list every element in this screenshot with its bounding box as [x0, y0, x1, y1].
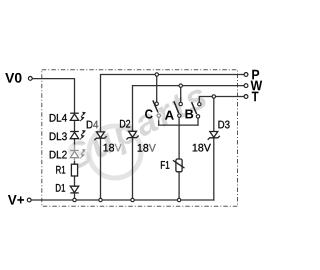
terminal T: [244, 95, 248, 99]
label D1: [56, 184, 65, 192]
wire W net: D2 column top to W terminal: [133, 86, 244, 132]
junction node rail DL column: [73, 198, 76, 201]
terminal W: [244, 84, 248, 88]
switch A: [174, 101, 183, 117]
watermark wash over second 18V letter V: [149, 144, 157, 154]
LED DL4: [70, 113, 79, 120]
label V0: [5, 73, 21, 83]
label P: [252, 70, 259, 80]
wire D3 column bottom: [213, 138, 215, 200]
wire B bottom stub: [197, 119, 199, 126]
wire DL4-DL3: [74, 120, 76, 131]
label B: [185, 109, 193, 118]
resistor R1: [71, 164, 77, 176]
label 18V for D4: [104, 144, 122, 152]
junction node rail D4 column: [99, 198, 102, 201]
wire D4 column bottom: [100, 138, 102, 200]
diode D1: [70, 186, 78, 193]
watermark wash over 18V letter V: [114, 143, 122, 153]
wire V0 to DL column: [33, 79, 75, 114]
watermark wash over DL2: [68, 145, 88, 162]
varistor F1: [173, 159, 185, 172]
terminal V0: [28, 77, 32, 81]
junction node on P wire: [155, 73, 158, 76]
wire C bottom stub: [158, 118, 160, 125]
wire A bottom to F1: [178, 118, 180, 159]
wire D2 column bottom: [132, 138, 134, 200]
label R1: [56, 166, 65, 174]
label DL4: [50, 114, 67, 122]
junction node on W wire: [179, 84, 182, 87]
wire switch common rail: [159, 124, 198, 126]
label DL2: [50, 151, 67, 159]
watermark wash over D4 label digit: [92, 119, 99, 130]
switch C: [153, 100, 161, 117]
wire DL3-DL2: [74, 139, 76, 151]
wire C switch stub: [156, 75, 158, 102]
LED arrows DL3: [80, 131, 85, 140]
label 18V for D3: [193, 144, 211, 152]
wire DL2-R1: [74, 158, 76, 165]
watermark wash over C bottom contact: [154, 112, 163, 121]
wire D1 to rail: [74, 193, 76, 200]
watermark: [68, 90, 206, 178]
wire P net: D4 column top to P terminal: [101, 75, 244, 132]
wire D3 column top: [213, 97, 215, 132]
label W: [251, 81, 263, 91]
LED DL2: [70, 151, 79, 158]
wire bottom V+ rail: [32, 199, 214, 201]
LED arrows DL2: [80, 150, 85, 159]
label D3: [218, 121, 229, 129]
label D4: [87, 121, 98, 129]
junction node on T wire: [212, 95, 215, 98]
junction node rail D2 column: [131, 198, 134, 201]
zener D3: [208, 132, 220, 140]
label D2: [120, 120, 130, 128]
label F1: [161, 161, 169, 169]
LED arrows DL4: [80, 112, 85, 121]
terminal V+: [27, 198, 31, 202]
LED DL3: [70, 132, 79, 139]
label T: [252, 92, 259, 102]
dash-dot enclosure border: [42, 70, 238, 207]
label A: [165, 111, 174, 120]
terminal P: [244, 73, 248, 77]
wire F1 to rail: [178, 172, 180, 200]
wire T net: B switch stub to T terminal: [199, 97, 243, 103]
label V+: [8, 195, 24, 205]
label 18V for D2: [138, 144, 156, 152]
zener D4: [94, 132, 106, 140]
switch B: [192, 102, 201, 118]
wire R1-D1: [74, 176, 76, 186]
label C: [145, 109, 153, 118]
zener D2: [126, 131, 138, 139]
junction node rail F1 column: [177, 198, 180, 201]
wire A switch stub: [180, 86, 182, 102]
label DL3: [50, 132, 67, 140]
